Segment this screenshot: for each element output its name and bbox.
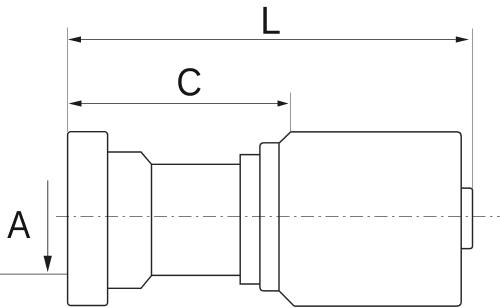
- extension line right (C): [290, 93, 292, 132]
- arrowhead C left: [69, 100, 82, 106]
- arrowhead C right: [278, 100, 289, 106]
- chamfer tangent line: [278, 143, 280, 291]
- collar: [240, 155, 260, 284]
- top chamfer: [279, 132, 290, 143]
- label C: [178, 68, 200, 96]
- flange: [68, 132, 108, 306]
- bottom chamfer: [279, 291, 294, 306]
- ferrule body: [291, 132, 461, 306]
- nipple: [461, 188, 472, 249]
- label A: [7, 211, 30, 238]
- hose reference line: [0, 273, 68, 275]
- nut bottom edge with chamfer: [108, 276, 152, 289]
- ferrule neck: [260, 143, 280, 291]
- dimension line C: [82, 103, 278, 105]
- arrowhead L left: [68, 36, 81, 42]
- nut-tube boundary: [151, 164, 153, 275]
- tube top edge: [152, 163, 241, 165]
- dimension line L: [81, 39, 456, 41]
- arrowhead A down: [44, 256, 52, 272]
- centerline: [56, 216, 500, 218]
- dimension A leader line: [47, 180, 49, 256]
- arrowhead L right: [456, 36, 469, 42]
- nut top edge with chamfer: [108, 152, 152, 164]
- extension line left (L and C): [67, 28, 69, 132]
- tube bottom edge: [152, 274, 241, 276]
- extension line right (L): [472, 29, 474, 189]
- label L: [263, 7, 279, 34]
